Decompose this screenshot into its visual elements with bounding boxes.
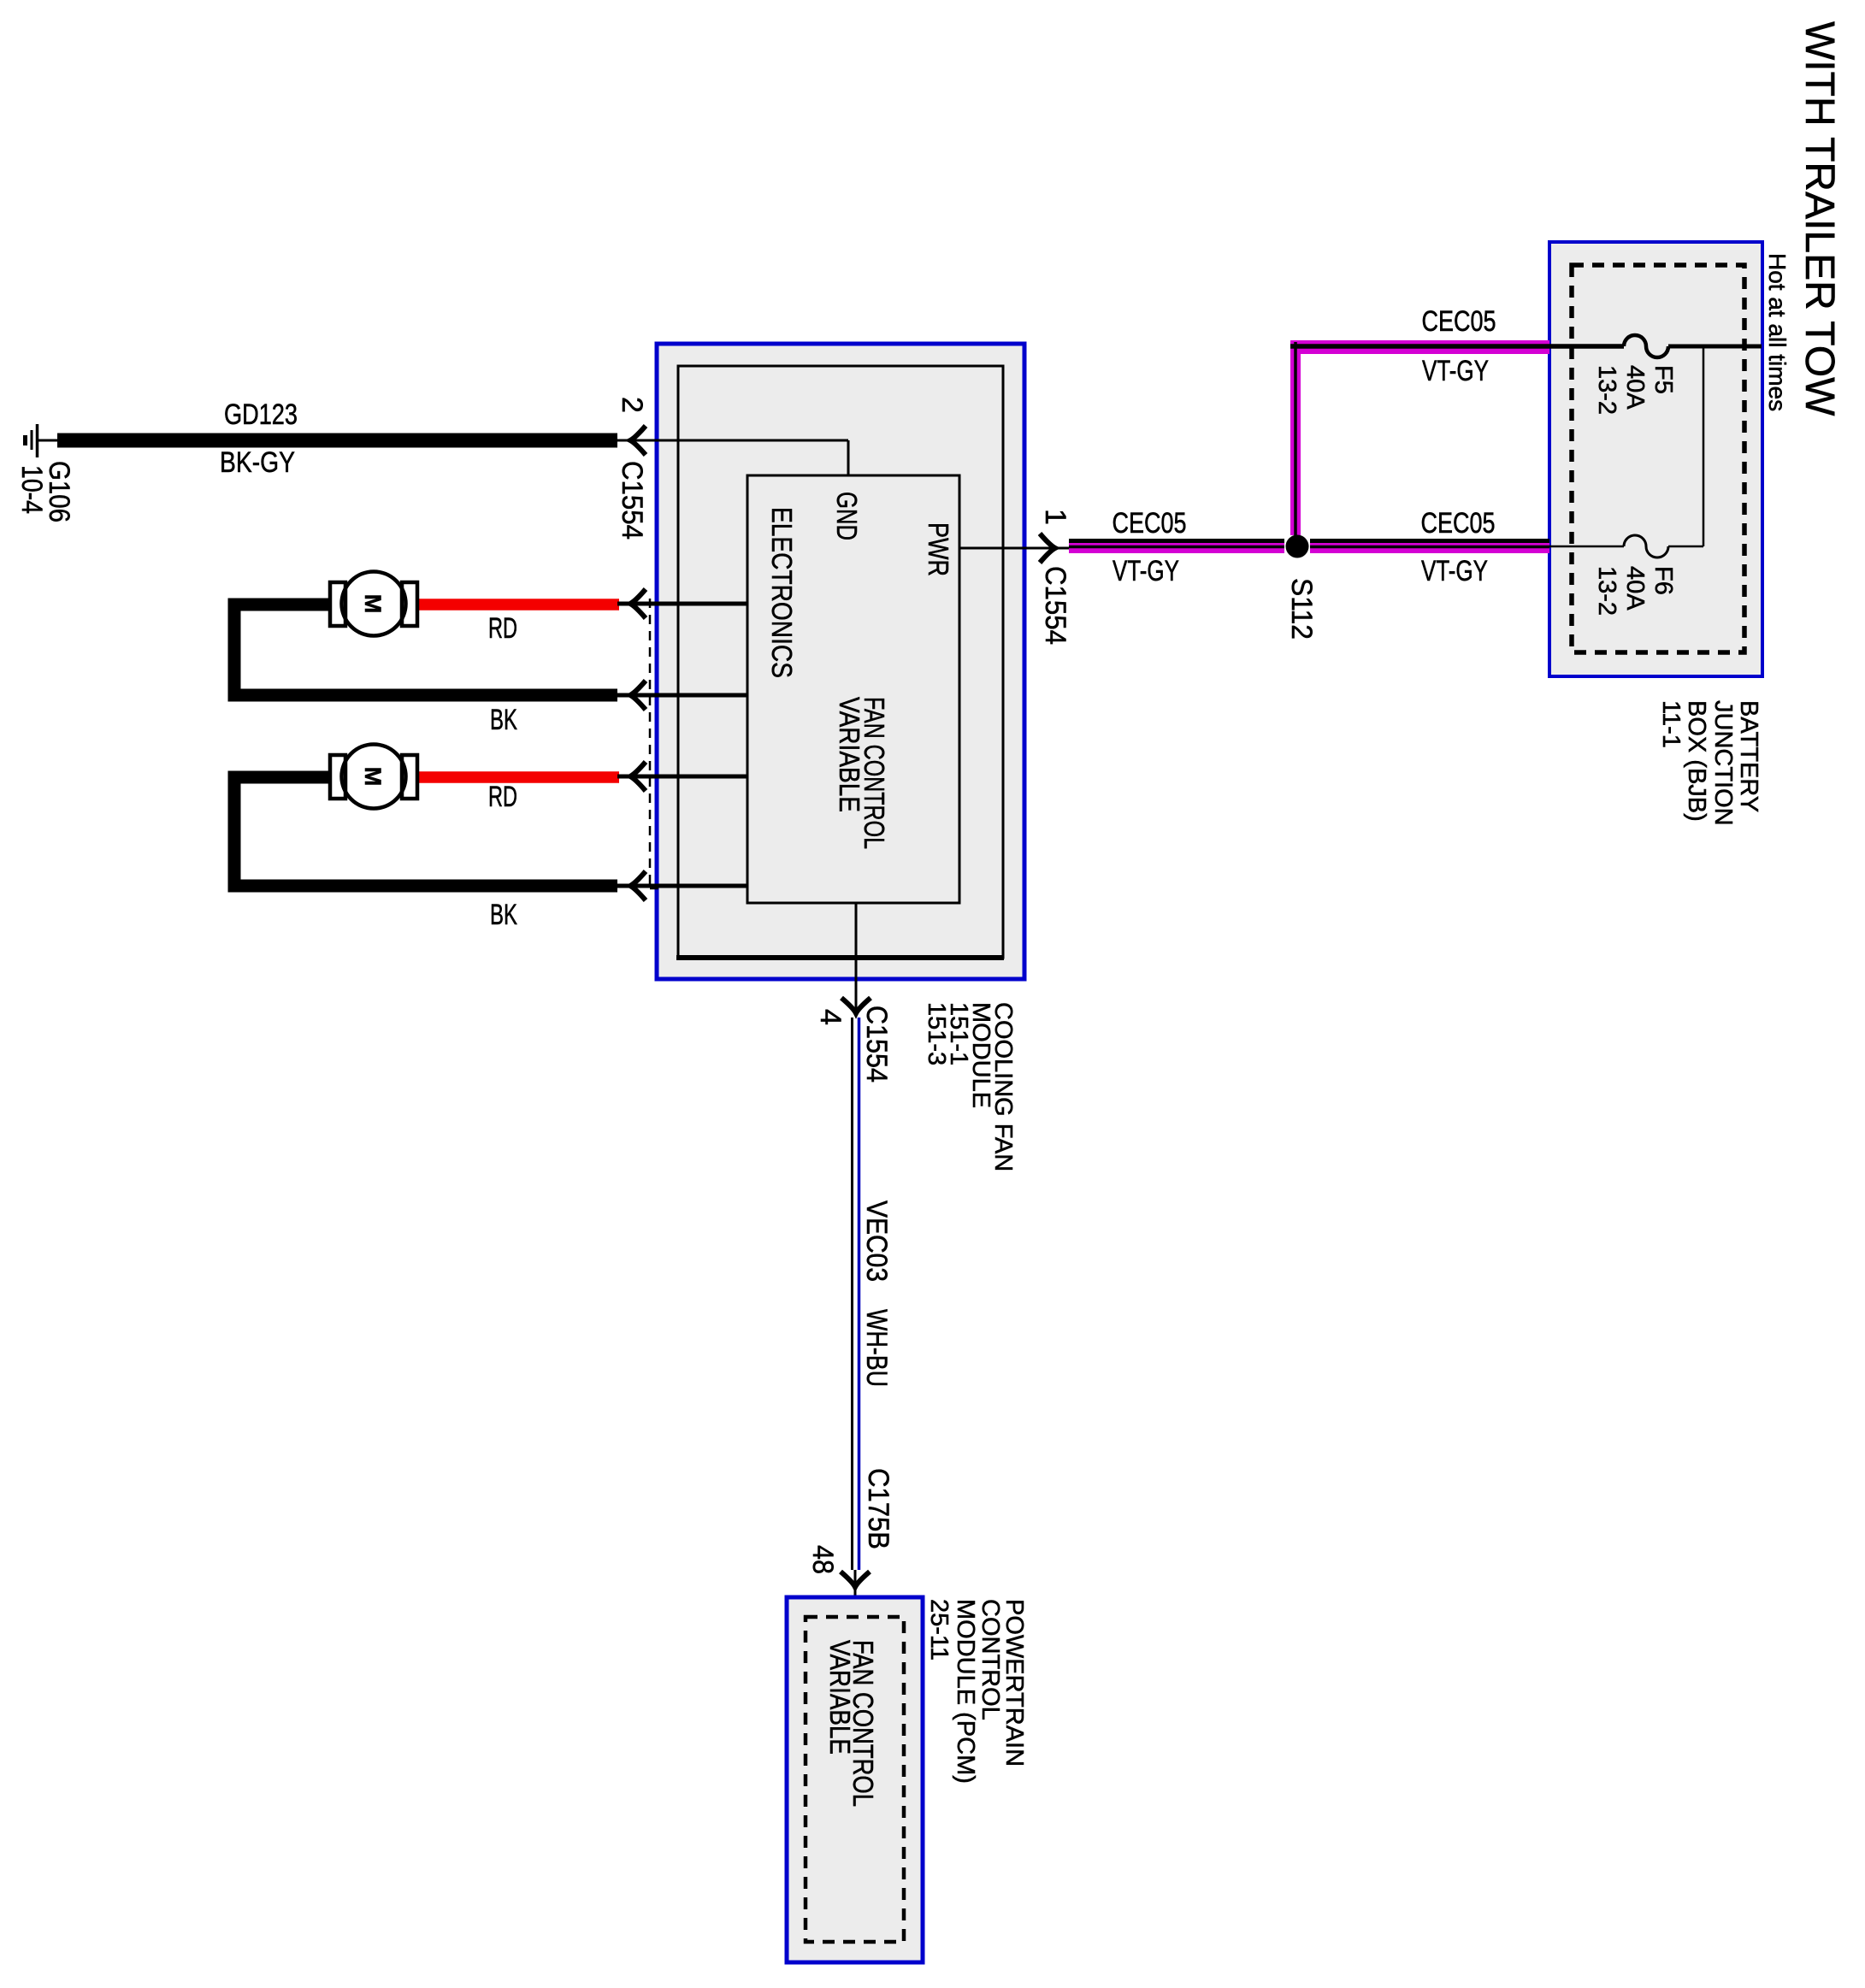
- fuse F6 40A 13-2: [1593, 535, 1677, 616]
- svg-text:VARIABLE: VARIABLE: [834, 697, 865, 812]
- svg-text:RD: RD: [488, 612, 517, 645]
- label GND: [831, 492, 863, 540]
- label BK (motor M1): [490, 704, 517, 736]
- label CEC05 VT-GY (right of splice): [1421, 507, 1496, 587]
- svg-text:C1554: C1554: [860, 1006, 893, 1082]
- title WITH TRAILER TOW: [1797, 21, 1842, 416]
- svg-text:WITH TRAILER TOW: WITH TRAILER TOW: [1797, 21, 1842, 416]
- svg-text:CEC05: CEC05: [1113, 507, 1187, 540]
- wire hot feed to fuse F5: [1668, 345, 1762, 349]
- svg-text:VT-GY: VT-GY: [1421, 555, 1488, 587]
- label RD (motor M2): [488, 781, 517, 813]
- svg-text:48: 48: [806, 1545, 839, 1574]
- svg-text:10-4: 10-4: [15, 465, 48, 514]
- wire PWR to C1554 pin 1: [959, 547, 1069, 550]
- wire VEC03 WH-BU twisted pair: [853, 1018, 894, 1570]
- label POWERTRAIN CONTROL MODULE (PCM) 25-11: [925, 1599, 1028, 1784]
- svg-text:2: 2: [616, 397, 648, 413]
- svg-text:40A: 40A: [1621, 566, 1649, 611]
- wire CEC05 VT-GY from C1554 pin 1 to splice: [1069, 541, 1284, 549]
- wire fuse bus branch: [1703, 346, 1705, 546]
- connector arrow row 5: [630, 871, 646, 900]
- svg-text:RD: RD: [488, 781, 517, 813]
- svg-text:4: 4: [814, 1009, 847, 1025]
- connector C1554 dashed line: [650, 599, 658, 889]
- connector C175B pin 48 arrow: [806, 1468, 894, 1619]
- connector arrow row 4: [630, 762, 646, 791]
- connector C1554 pin 4 arrow: [814, 998, 893, 1082]
- svg-text:BATTERY: BATTERY: [1735, 700, 1762, 812]
- svg-text:VT-GY: VT-GY: [1422, 355, 1489, 387]
- svg-text:25-11: 25-11: [925, 1599, 953, 1661]
- label ELECTRONICS: [766, 507, 798, 678]
- svg-text:CEC05: CEC05: [1422, 305, 1496, 338]
- label PWR: [923, 522, 954, 576]
- svg-text:40A: 40A: [1621, 365, 1649, 410]
- ground G106: [15, 424, 75, 522]
- svg-text:BK: BK: [490, 899, 517, 931]
- wire variable fan control out of module pin 4: [855, 903, 858, 1013]
- wire GND pin 2 into module: [617, 440, 848, 475]
- svg-text:C1554: C1554: [616, 461, 648, 540]
- svg-text:GND: GND: [831, 492, 863, 540]
- svg-text:MODULE (PCM): MODULE (PCM): [952, 1599, 979, 1784]
- battery junction box (BJB) outline: [1549, 242, 1762, 676]
- powertrain control module (PCM) box: [787, 1597, 923, 1962]
- svg-text:11-1: 11-1: [1657, 700, 1685, 748]
- connector arrow row 3: [630, 681, 646, 710]
- label COOLING FAN MODULE 151-1 151-3: [923, 1002, 1017, 1171]
- svg-text:VT-GY: VT-GY: [1113, 555, 1179, 587]
- svg-text:GD123: GD123: [224, 398, 298, 431]
- label VARIABLE FAN CONTROL: [834, 697, 890, 849]
- svg-text:F6: F6: [1650, 566, 1677, 595]
- svg-text:S112: S112: [1285, 578, 1318, 640]
- svg-text:CONTROL: CONTROL: [977, 1599, 1004, 1720]
- svg-text:PWR: PWR: [923, 522, 954, 576]
- svg-text:13-2: 13-2: [1593, 566, 1620, 616]
- svg-text:13-2: 13-2: [1593, 365, 1620, 415]
- label CEC05 VT-GY (upper): [1422, 305, 1496, 387]
- wire CEC05 VT-GY upper run: [1290, 340, 1624, 535]
- svg-text:BK: BK: [490, 704, 517, 736]
- svg-text:151-3: 151-3: [923, 1002, 950, 1065]
- label CEC05 VT-GY (left of splice): [1113, 507, 1187, 587]
- wire CEC05 VT-GY from splice to BJB: [1310, 541, 1549, 549]
- cooling fan module box: [657, 344, 1024, 979]
- svg-text:ELECTRONICS: ELECTRONICS: [766, 507, 798, 678]
- svg-text:M: M: [360, 594, 386, 614]
- svg-text:CEC05: CEC05: [1421, 507, 1496, 540]
- motor M2: [234, 745, 619, 887]
- svg-text:1: 1: [1039, 509, 1071, 525]
- label VARIABLE FAN CONTROL (PCM): [824, 1640, 879, 1807]
- svg-text:JUNCTION: JUNCTION: [1709, 700, 1737, 826]
- wire motor leads into module rows: [617, 604, 747, 886]
- svg-text:VEC03: VEC03: [860, 1200, 893, 1282]
- connector arrow row 2: [630, 589, 646, 618]
- connector C1554 pin 2 arrow: [616, 397, 648, 540]
- svg-text:F5: F5: [1650, 365, 1677, 394]
- wire F6 feed: [1549, 546, 1703, 548]
- label BATTERY JUNCTION BOX (BJB) 11-1: [1657, 700, 1762, 826]
- svg-text:BK-GY: BK-GY: [220, 446, 295, 479]
- svg-text:BOX (BJB): BOX (BJB): [1683, 700, 1710, 822]
- motor M1: [234, 572, 619, 696]
- svg-text:C1554: C1554: [1039, 566, 1071, 645]
- svg-text:Hot at all times: Hot at all times: [1764, 253, 1791, 411]
- splice S112: [1285, 535, 1318, 640]
- svg-text:WH-BU: WH-BU: [860, 1309, 893, 1387]
- label RD (motor M1): [488, 612, 517, 645]
- wire GD123 BK-GY: [57, 398, 617, 479]
- svg-text:VARIABLE: VARIABLE: [824, 1640, 856, 1755]
- label BK (motor M2): [490, 899, 517, 931]
- svg-text:C175B: C175B: [862, 1468, 894, 1549]
- fuse F5 40A 13-2: [1593, 335, 1677, 415]
- label Hot at all times: [1764, 253, 1791, 411]
- connector C1554 pin 1 arrow: [1039, 509, 1071, 645]
- svg-text:M: M: [360, 767, 386, 787]
